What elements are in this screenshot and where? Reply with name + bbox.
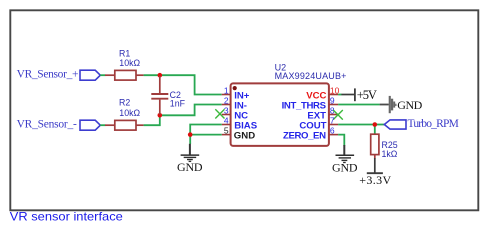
svg-text:9: 9: [330, 96, 335, 106]
ground GND (left): [177, 144, 203, 174]
svg-text:10kΩ: 10kΩ: [119, 108, 140, 118]
wire BIAS to ground junction: [190, 125, 222, 135]
svg-text:1kΩ: 1kΩ: [382, 149, 398, 159]
wire pin 7 to junction D: [338, 124, 375, 126]
no-connect X pin 3: [215, 109, 224, 118]
no-connect X pin 8: [333, 110, 343, 120]
pin 2 IN-: [222, 95, 247, 111]
svg-text:VR_Sensor_+: VR_Sensor_+: [17, 69, 79, 81]
wire port+ to R1: [100, 74, 105, 76]
pin 10 VCC: [306, 86, 339, 102]
wire port- to R2: [100, 124, 105, 126]
junction A (R1/C2): [158, 73, 163, 78]
pin 5 GND: [222, 125, 255, 141]
wire junction D to port: [375, 124, 385, 126]
port VR_Sensor_+: [17, 69, 101, 81]
svg-text:GND: GND: [397, 98, 422, 112]
svg-text:GND: GND: [177, 160, 203, 174]
svg-text:10kΩ: 10kΩ: [119, 58, 140, 68]
port VR_Sensor_-: [17, 119, 101, 131]
pin 6 ZERO_EN: [283, 126, 338, 142]
svg-text:7: 7: [330, 116, 335, 126]
pin 8 EXT: [307, 106, 338, 122]
junction D (COUT/R25/port): [373, 122, 378, 127]
svg-text:MAX9924UAUB+: MAX9924UAUB+: [275, 71, 347, 81]
wire junction D down to R25: [374, 125, 376, 135]
pin 3 NC: [222, 105, 248, 121]
svg-text:5: 5: [224, 125, 229, 135]
svg-text:6: 6: [330, 126, 335, 136]
svg-text:R2: R2: [119, 98, 130, 108]
ground GND (right of pin 9): [380, 96, 423, 113]
power +3.3V: [359, 158, 391, 187]
wire pin 6 to ground: [338, 135, 344, 146]
pin 7 COUT: [299, 116, 338, 132]
wire R2 to junction B: [144, 115, 160, 125]
svg-text:VR sensor interface: VR sensor interface: [10, 209, 123, 223]
svg-text:Turbo_RPM: Turbo_RPM: [408, 118, 459, 130]
svg-text:4: 4: [224, 115, 229, 125]
junction C (BIAS/GND): [188, 132, 193, 137]
svg-text:1: 1: [224, 85, 229, 95]
svg-text:GND: GND: [234, 131, 255, 142]
wire junction B to pin 2: [160, 105, 222, 116]
pin 1 IN+: [222, 85, 250, 101]
svg-text:3: 3: [224, 105, 229, 115]
resistor R25 1k: [371, 134, 398, 159]
svg-text:+5V: +5V: [357, 88, 377, 102]
capacitor C2 1nF: [151, 76, 185, 115]
wire junction A to pin 1: [160, 75, 222, 94]
wire R1 to junction A: [144, 74, 160, 76]
svg-text:2: 2: [224, 95, 229, 105]
IC U2 MAX9924UAUB+ body: [231, 63, 347, 146]
resistor R1 10k: [105, 49, 144, 80]
pin 9 INT_THRS: [282, 96, 339, 112]
svg-text:+3.3V: +3.3V: [359, 173, 391, 187]
pin 1 indicator dot: [233, 86, 237, 90]
wire pin 5 GND to junction: [190, 134, 222, 136]
svg-text:VR_Sensor_-: VR_Sensor_-: [17, 119, 77, 131]
wire pin 9 to GND: [338, 104, 380, 106]
pin 4 BIAS: [222, 115, 258, 131]
svg-text:GND: GND: [332, 160, 358, 174]
junction B (R2/C2): [158, 113, 163, 118]
ground GND (below pin 6): [332, 145, 358, 174]
svg-text:1nF: 1nF: [170, 98, 186, 108]
power +5V: [341, 88, 377, 102]
wire pin 10 to +5V: [338, 94, 341, 96]
port Turbo_RPM: [384, 118, 459, 130]
wire junction C down: [189, 135, 191, 144]
svg-text:ZERO_EN: ZERO_EN: [283, 131, 326, 142]
resistor R2 10k: [105, 98, 144, 130]
